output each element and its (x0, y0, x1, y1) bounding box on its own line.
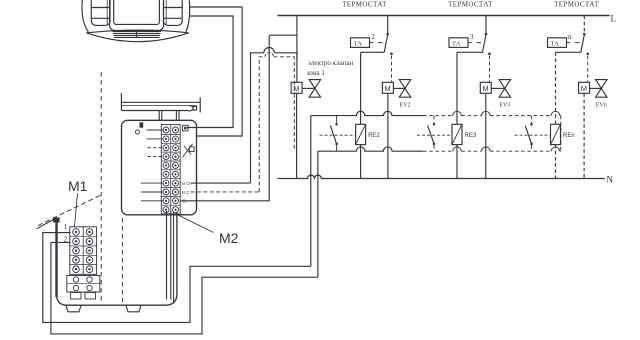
wire motor1 to N (296, 93, 298, 178)
thermostat left button stack (91, 0, 110, 25)
casing foot right (126, 305, 141, 311)
relay loop top line dashed with hops (423, 115, 561, 117)
svg-text:зона 1: зона 1 (307, 69, 326, 77)
control box enclosure (122, 120, 197, 215)
svg-text:N C.: N C. (182, 190, 191, 195)
relay contact zone n (525, 116, 533, 152)
L drop zone n (583, 16, 585, 33)
N rail with hops (278, 175, 605, 178)
strip internal stub row 4 (dashed) (148, 156, 164, 158)
casing bottom and corners (57, 212, 177, 305)
relay contact zone 2 (330, 116, 338, 152)
relay coil REn (551, 124, 561, 144)
L rail (278, 15, 610, 17)
switch alt contact dot zone 3 (488, 53, 491, 56)
M1 mounting tabs (71, 293, 96, 300)
relay coil RE3 (452, 124, 462, 144)
L drop zone 3 (485, 16, 487, 33)
wire from controller terminal 2 (lower) (187, 16, 233, 128)
jumper cut icon at strip rows 3-4 (183, 144, 195, 157)
pivot wire zone 2 (361, 51, 385, 53)
relay coil to N wire zone 2 (360, 145, 362, 179)
strip internal stub row 1 (147, 129, 164, 131)
thermostat TA box zone 3 (449, 38, 468, 48)
strip internal stub row C (141, 200, 163, 202)
svg-text:N O.: N O. (182, 181, 191, 186)
M1 screw slots (75, 231, 91, 271)
switch top contact dot zone 2 (386, 33, 389, 36)
zone1 channel dashed hop (265, 52, 274, 56)
svg-text:EVn: EVn (596, 103, 607, 109)
terminal strip M2 screw slots (165, 129, 177, 211)
wire M1-1 to bottom run (43, 233, 311, 323)
TA link dash zone 2 (370, 42, 383, 44)
svg-text:ТА: ТА (452, 41, 461, 48)
wire from controller terminal 1 (upper) (190, 7, 242, 136)
relay feed wire zone 2 (360, 52, 362, 124)
strip internal stub row 2 (147, 138, 164, 140)
relay feed wire zone 3 (456, 52, 458, 124)
svg-text:M2: M2 (219, 230, 239, 246)
TA link dash zone 3 (468, 42, 481, 44)
pivot wire zone n (556, 51, 582, 53)
motor M box zone n (579, 82, 590, 93)
wire NO row to channel (191, 182, 251, 184)
svg-text:M: M (581, 84, 587, 93)
switch top contact dot zone 3 (485, 33, 488, 36)
zone1 feed from L (269, 16, 297, 36)
motor M box zone 3 (480, 82, 491, 93)
svg-text:REn: REn (563, 133, 575, 139)
zone1 wire down to strip row C (180, 35, 269, 201)
relay loop top hops dashed zone3/n (453, 111, 560, 115)
switch to motor dashed link zone 3 (489, 56, 491, 83)
valve EV2 zone 2 (393, 80, 410, 98)
switch to motor dashed link zone n (587, 56, 589, 83)
motor M box zone 2 (382, 82, 393, 93)
relay coil RE2 (356, 124, 366, 144)
switch blade zone 3 (483, 35, 487, 53)
terminal block M1 frame (70, 227, 97, 274)
motor to N wire zone 2 (387, 93, 389, 178)
contact link dashes zone n (515, 134, 551, 136)
screw hole in box (136, 130, 140, 134)
svg-text:RE3: RE3 (465, 133, 477, 139)
valve EV zone1 (302, 80, 321, 98)
M1 lower connector block (67, 276, 100, 293)
motor to N wire zone 3 (485, 93, 487, 178)
svg-text:2: 2 (372, 34, 376, 41)
black square marker on box top (140, 122, 144, 127)
relay coil to N wire zone n (555, 145, 557, 179)
pipe riser right (176, 111, 179, 121)
strip internal stub row NO (141, 182, 163, 184)
thermostat controller body (82, 0, 190, 32)
thermostat right button stack (164, 0, 183, 25)
relay loop bottom hops dashed zone3/n (453, 147, 560, 151)
svg-text:EV3: EV3 (499, 103, 510, 109)
valve EV3 zone 3 (491, 80, 510, 98)
strip internal stub row NC (141, 191, 163, 193)
terminal strip M2 screws column A (163, 127, 169, 213)
L drop zone 2 (387, 16, 389, 33)
relay loop top line solid with hops (311, 111, 423, 115)
boiler casing cut edge (bold left) (53, 217, 60, 297)
M1 pointer line (75, 193, 78, 227)
svg-text:ТЕРМОСТАТ: ТЕРМОСТАТ (342, 1, 387, 9)
pivot wire zone 3 (457, 51, 483, 53)
switch blade zone n (581, 35, 585, 53)
thermostat screen (110, 0, 164, 31)
switch to motor dashed link zone 2 (391, 56, 393, 83)
zone1 channel solid hop (264, 47, 275, 52)
thermostat grille (113, 30, 162, 38)
wire M1-2 to bottom run (51, 242, 318, 334)
valve EVn zone n (590, 80, 607, 98)
relay coil to N wire zone 3 (456, 145, 458, 179)
casing dashed diagonal (38, 195, 101, 226)
manifold pipe above control box (121, 93, 200, 111)
terminal strip M2 frame (161, 125, 180, 214)
svg-text:n: n (568, 34, 572, 41)
svg-text:RE2: RE2 (368, 133, 380, 139)
svg-text:ТА: ТА (551, 41, 560, 48)
motor M zone1 (291, 82, 302, 93)
relay contact zone 3 (428, 116, 436, 152)
svg-text:M: M (293, 84, 299, 93)
terminal strip M2 screws column B (173, 127, 179, 213)
thermostat TA box zone 2 (351, 38, 370, 48)
M2 pointer line (176, 214, 214, 233)
wall dashed line B (122, 218, 124, 302)
contact link dashes zone 2 (320, 134, 356, 136)
svg-text:L: L (611, 14, 617, 24)
wire NC row to channel (dashed) (191, 191, 260, 193)
wire loop bottom feed vertical (317, 151, 319, 277)
switch alt contact dot zone n (586, 53, 589, 56)
pipe bleed nozzle (189, 105, 197, 111)
zone1 cable channel solid (251, 53, 298, 183)
switch top contact dot zone n (583, 33, 586, 36)
switch blade zone 2 (384, 35, 388, 53)
svg-text:M1: M1 (68, 178, 88, 194)
relay loop right dashed edge (560, 116, 562, 152)
M1 screws column A (73, 229, 80, 273)
svg-text:ТЕРМОСТАТ: ТЕРМОСТАТ (554, 1, 599, 9)
thermostat controller base (86, 30, 188, 42)
svg-text:1: 1 (64, 222, 68, 231)
zone1 vertical to motor (296, 35, 298, 82)
relay loop bottom line dashed with hops (423, 150, 561, 152)
switch alt contact dot zone 2 (390, 53, 393, 56)
contact link dashes zone 3 (417, 134, 452, 136)
pipe riser left (159, 111, 162, 121)
svg-text:электро клапан: электро клапан (308, 59, 353, 67)
svg-text:EV2: EV2 (400, 103, 411, 109)
zone1 cable channel dashed (259, 57, 294, 192)
svg-text:M: M (482, 84, 488, 93)
TA link dash zone n (567, 42, 580, 44)
M1 screws column B (86, 229, 93, 273)
casing foot left (66, 305, 81, 311)
wire loop top feed vertical (310, 116, 312, 267)
svg-text:M: M (385, 84, 391, 93)
svg-text:ТЕРМОСТАТ: ТЕРМОСТАТ (448, 1, 493, 9)
connector icon at strip row 1 (183, 125, 189, 131)
relay feed wire zone n (555, 52, 557, 124)
motor to N wire zone n (583, 93, 585, 178)
thermostat TA box zone n (548, 38, 567, 48)
pipe end flange (199, 97, 201, 112)
wall dashed line A (100, 72, 102, 302)
svg-text:ТА: ТА (354, 41, 363, 48)
svg-text:3: 3 (470, 34, 474, 41)
casing top diagonal cut (37, 220, 54, 229)
relay loop bottom line solid with hops (318, 147, 423, 151)
svg-text:N: N (607, 175, 614, 185)
strip internal stub row 3 (dashed) (148, 147, 164, 149)
casing right inner edge (173, 212, 175, 304)
M2 strip tail wires (167, 211, 171, 300)
